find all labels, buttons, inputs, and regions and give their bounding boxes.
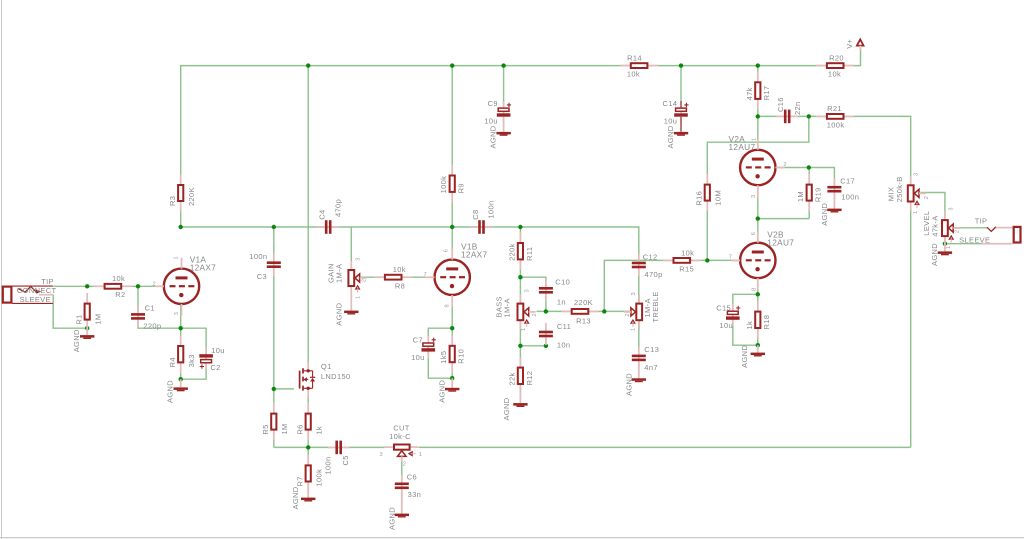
input jack switch wire	[39, 294, 53, 296]
svg-text:2: 2	[362, 279, 368, 282]
svg-text:C13: C13	[644, 345, 659, 354]
potentiometer GAIN 1M-A	[350, 261, 352, 271]
svg-text:47k: 47k	[745, 87, 754, 100]
wire rail through R17 to V2A plate	[757, 66, 759, 150]
junction R10 bottom	[450, 376, 454, 380]
svg-text:R13: R13	[576, 316, 591, 325]
svg-text:AGND: AGND	[388, 507, 397, 530]
svg-text:4n7: 4n7	[644, 363, 658, 372]
tube V1A 12AX7	[164, 269, 199, 304]
capacitor C17 100n	[833, 178, 835, 200]
svg-text:1: 1	[946, 246, 952, 249]
input jack tip contact	[12, 285, 53, 287]
svg-text:2: 2	[955, 230, 961, 233]
wire Q1 gate	[274, 388, 294, 390]
svg-text:1: 1	[751, 138, 757, 141]
junction C16 R21	[807, 114, 811, 118]
wire BASS top to C10	[520, 277, 546, 311]
wire rail to C9	[503, 66, 505, 101]
page border bottom	[0, 537, 1024, 539]
power V+ symbol	[857, 39, 864, 45]
svg-text:R5: R5	[261, 424, 270, 434]
tube V2B 12AU7	[740, 243, 775, 278]
wire GAIN wiper through R8 to V1B grid	[360, 276, 435, 278]
ground AGND C6	[401, 492, 403, 514]
svg-text:R12: R12	[525, 371, 534, 386]
junction rail x503	[501, 63, 505, 67]
svg-text:10u: 10u	[211, 346, 225, 355]
svg-text:C12: C12	[643, 252, 658, 261]
resistor R16 10M	[706, 174, 708, 186]
resistor R19 1M	[808, 174, 810, 186]
svg-text:12AU7: 12AU7	[767, 238, 794, 248]
wire BASS wiper through R13 to TREBLE wiper	[537, 310, 632, 312]
wire C2 parallel loop	[181, 328, 206, 379]
svg-text:3: 3	[751, 195, 757, 198]
svg-text:3: 3	[631, 292, 637, 295]
svg-text:C7: C7	[413, 336, 423, 345]
resistor R17 47k	[757, 72, 759, 84]
potentiometer LEVEL 47k-A	[944, 211, 946, 221]
resistor R7 100k	[307, 455, 309, 467]
svg-text:2: 2	[924, 196, 930, 199]
resistor R20 10k	[816, 65, 828, 67]
svg-text:8: 8	[444, 304, 450, 307]
svg-text:R10: R10	[457, 349, 466, 364]
svg-text:220k: 220k	[507, 243, 516, 261]
svg-text:2: 2	[403, 461, 406, 467]
potentiometer MIX 250k-B	[910, 176, 912, 186]
page border left	[1, 0, 3, 539]
wire C8 node down through R11 to BASS pot	[519, 227, 521, 303]
svg-text:AGND: AGND	[165, 380, 174, 403]
svg-text:3: 3	[914, 173, 920, 176]
svg-text:100k: 100k	[827, 120, 845, 129]
svg-text:12AX7: 12AX7	[461, 249, 487, 259]
junction R18 bottom	[756, 343, 760, 347]
svg-text:10k: 10k	[112, 274, 125, 283]
svg-text:R3: R3	[168, 196, 177, 206]
capacitor C16 22n	[776, 115, 798, 117]
output jack sleeve wire	[982, 243, 1013, 245]
svg-text:220K: 220K	[187, 187, 196, 206]
svg-text:CONNECT: CONNECT	[17, 286, 57, 295]
input jack switch mark	[18, 286, 37, 292]
wire BASS pin1 to C11 bottom node	[520, 321, 546, 346]
wire C4 to GAIN pot pin 3	[350, 227, 352, 269]
svg-text:1: 1	[521, 328, 527, 331]
ground AGND LEVEL	[944, 244, 946, 252]
ground AGND C13	[638, 362, 640, 378]
svg-text:10n: 10n	[557, 341, 571, 350]
svg-text:100n: 100n	[841, 193, 859, 202]
svg-text:TIP: TIP	[41, 277, 54, 286]
svg-text:10k: 10k	[393, 265, 406, 274]
wire MIX pin1 down to CUT net	[910, 203, 912, 448]
svg-text:R19: R19	[814, 187, 823, 202]
wire Q1 drain/source column from rail to CUT node	[307, 66, 309, 363]
svg-text:TREBLE: TREBLE	[651, 291, 660, 322]
svg-text:6: 6	[444, 249, 450, 252]
svg-text:220p: 220p	[143, 322, 161, 331]
junction R6 bottom CUT node	[306, 445, 310, 449]
junction LEVEL pin1 sleeve	[943, 242, 947, 246]
svg-text:10k: 10k	[681, 248, 694, 257]
junction V2A grid node	[807, 165, 811, 169]
Q1 drain dot	[307, 369, 310, 372]
wire MIX wiper to LEVEL pin 3	[921, 193, 945, 220]
svg-text:R8: R8	[395, 282, 405, 291]
svg-text:3k3: 3k3	[187, 354, 196, 367]
svg-text:C2: C2	[210, 363, 220, 372]
svg-text:6: 6	[751, 232, 757, 235]
svg-text:SLEEVE: SLEEVE	[20, 295, 51, 304]
ground AGND R7	[307, 484, 309, 498]
svg-text:R14: R14	[627, 53, 642, 62]
junction V2A cathode node	[756, 216, 760, 220]
ground AGND C14	[680, 117, 682, 132]
junction V1B cathode	[450, 326, 454, 330]
capacitor C6 33n	[401, 475, 403, 497]
resistor R8 10k	[374, 276, 386, 278]
wire jack switch+sleeve to ground rail	[53, 295, 87, 329]
ground AGND R18	[757, 345, 759, 352]
svg-text:10k: 10k	[828, 70, 841, 79]
wire Q1 source to CUT node and R7	[307, 396, 309, 490]
junction BASS top	[518, 275, 522, 279]
ground AGND C17	[833, 194, 835, 209]
svg-text:AGND: AGND	[820, 202, 829, 225]
svg-text:R11: R11	[525, 247, 534, 261]
resistor R6 1k	[307, 403, 309, 415]
junction V1B plate	[450, 225, 454, 229]
svg-text:AGND: AGND	[489, 125, 498, 148]
svg-text:AGND: AGND	[625, 373, 634, 396]
svg-text:R16: R16	[695, 191, 704, 206]
Q1 pin stubs	[307, 362, 309, 369]
junction BASS pin1 node	[518, 344, 522, 348]
tube V1B 12AX7	[435, 260, 470, 295]
Q1 source dot	[307, 387, 310, 390]
junction R3 bottom	[179, 225, 183, 229]
svg-text:100n: 100n	[324, 456, 333, 474]
junction R1 ground	[85, 326, 89, 330]
svg-text:10M: 10M	[714, 190, 723, 206]
svg-text:1M: 1M	[280, 423, 289, 434]
svg-text:100k: 100k	[439, 176, 448, 194]
svg-text:R9: R9	[457, 183, 466, 193]
svg-text:Q1: Q1	[321, 362, 332, 371]
svg-text:LND150: LND150	[321, 372, 351, 381]
svg-text:1: 1	[419, 452, 422, 458]
svg-text:AGND: AGND	[502, 397, 511, 420]
wire grid node to C17	[809, 168, 835, 182]
svg-text:R6: R6	[296, 424, 305, 434]
svg-text:33n: 33n	[408, 490, 422, 499]
svg-text:8: 8	[751, 288, 757, 291]
resistor R10 1k5	[451, 335, 453, 347]
svg-text:1: 1	[630, 328, 636, 331]
svg-text:AGND: AGND	[437, 379, 446, 402]
ground AGND R12	[519, 394, 521, 403]
junction input grid	[85, 284, 89, 288]
svg-text:AGND: AGND	[930, 243, 939, 266]
svg-text:R20: R20	[829, 53, 844, 62]
resistor R9 100k	[451, 165, 453, 177]
junction C11 bottom	[544, 344, 548, 348]
svg-text:10u: 10u	[664, 117, 678, 126]
svg-text:10u: 10u	[484, 117, 498, 126]
resistor R12 22k	[519, 357, 521, 369]
wire R16 column to V2B grid node	[707, 116, 809, 260]
svg-text:AGND: AGND	[291, 486, 300, 509]
wire cathode node to R19 bottom	[758, 218, 809, 220]
svg-text:100k: 100k	[314, 469, 323, 487]
junction C1 top	[136, 284, 140, 288]
svg-text:3: 3	[356, 258, 362, 261]
svg-text:C9: C9	[488, 99, 498, 108]
capacitor C3 100n	[273, 254, 275, 276]
potentiometer BASS 1M-A	[519, 295, 521, 305]
svg-text:3: 3	[524, 289, 530, 292]
svg-text:100n: 100n	[487, 201, 496, 219]
wire rail through R9 to V1B plate	[451, 66, 453, 260]
junction R4 bottom	[179, 377, 183, 381]
wire TREBLE pin1 to C13 and AGND	[638, 321, 640, 349]
wire V2A cathode to V2B plate	[757, 185, 759, 243]
svg-text:22k: 22k	[507, 372, 516, 385]
svg-text:10k-C: 10k-C	[389, 432, 411, 441]
svg-text:1k: 1k	[314, 426, 323, 435]
svg-text:2: 2	[783, 162, 786, 168]
svg-text:1: 1	[356, 296, 362, 299]
svg-text:250k-B: 250k-B	[895, 176, 904, 202]
svg-text:C11: C11	[557, 322, 571, 331]
svg-text:12AU7: 12AU7	[729, 142, 756, 152]
svg-text:C14: C14	[662, 99, 677, 108]
wire V1A cathode down through R4 to AGND	[180, 304, 182, 379]
wire V+ top rail	[181, 49, 861, 227]
potentiometer TREBLE 1M-A	[638, 295, 640, 305]
junction R15 V2B grid	[705, 258, 709, 262]
svg-text:1k: 1k	[745, 321, 754, 330]
capacitor C7 10u	[427, 336, 429, 358]
svg-text:1k5: 1k5	[439, 351, 448, 364]
ground AGND C9	[503, 117, 505, 132]
capacitor C14 10u	[680, 101, 682, 123]
wire V1A plate node to C12 column	[181, 227, 639, 257]
svg-text:2: 2	[153, 281, 156, 287]
junction rail x452	[450, 63, 454, 67]
junction rail x681	[679, 63, 683, 67]
capacitor C11 10n	[545, 323, 547, 345]
resistor R21 100k	[816, 115, 828, 117]
wire R21 to MIX column	[845, 116, 911, 184]
svg-text:C17: C17	[840, 176, 855, 185]
svg-text:10u: 10u	[719, 321, 733, 330]
svg-text:C8: C8	[471, 210, 480, 220]
resistor R11 220k	[519, 233, 521, 245]
svg-text:3: 3	[380, 452, 383, 458]
svg-text:3: 3	[174, 312, 180, 315]
wire CUT wiper to C6	[401, 457, 403, 480]
output jack J2	[1014, 227, 1021, 243]
potentiometer CUT 10k-C	[385, 446, 393, 448]
wire LEVEL pin1 / output SLEEVE	[944, 237, 946, 244]
svg-text:C1: C1	[145, 304, 155, 313]
wire LEVEL wiper to output TIP	[954, 227, 987, 229]
svg-text:C4: C4	[318, 210, 327, 220]
wire C6 to AGND	[401, 491, 403, 507]
svg-text:7: 7	[729, 254, 732, 260]
wire grid node through C1 to cathode rail	[138, 286, 181, 328]
svg-text:2: 2	[532, 313, 538, 316]
capacitor C13 4n7	[638, 347, 640, 369]
output jack tip contact	[987, 227, 996, 232]
wire tone node up to R15 and V2B grid	[604, 260, 740, 311]
wire R5/C3 column	[273, 227, 275, 447]
wire rail to C14	[680, 66, 682, 101]
wire C7 parallel loop	[428, 328, 452, 378]
svg-text:1M-A: 1M-A	[335, 264, 344, 283]
svg-text:TIP: TIP	[975, 216, 988, 225]
junction C3 top	[272, 225, 276, 229]
wire R17 bottom to C16	[758, 115, 778, 117]
svg-text:1: 1	[173, 256, 179, 259]
resistor R2 10k	[94, 285, 106, 287]
svg-text:AGND: AGND	[666, 125, 675, 148]
svg-text:C10: C10	[555, 277, 570, 286]
ground AGND R1	[86, 328, 88, 335]
resistor R4 3k3	[180, 336, 182, 348]
wire V2A grid to R19/C17 node	[776, 167, 809, 169]
svg-text:R4: R4	[168, 357, 177, 367]
resistor R14 10k	[620, 65, 632, 67]
svg-text:SLEEVE: SLEEVE	[959, 235, 990, 244]
capacitor C9 10u	[503, 101, 505, 123]
svg-text:7: 7	[424, 272, 427, 278]
svg-text:100n: 100n	[249, 252, 267, 261]
svg-text:C6: C6	[407, 473, 417, 482]
wire V1B cathode through R10 to AGND node	[451, 295, 453, 378]
svg-text:V+: V+	[845, 38, 854, 48]
capacitor C10 1n	[545, 279, 547, 301]
junction V2B cathode node	[756, 292, 760, 296]
svg-text:C5: C5	[341, 455, 350, 465]
ground AGND R4	[180, 379, 182, 387]
svg-text:R7: R7	[296, 476, 305, 486]
capacitor C2 10u	[205, 347, 207, 369]
svg-text:R17: R17	[762, 86, 771, 101]
svg-text:R18: R18	[762, 315, 771, 330]
junction tone node	[602, 309, 606, 313]
ground AGND V1B	[451, 378, 453, 388]
capacitor C4 470p	[317, 226, 339, 228]
capacitor C5 100n	[328, 446, 350, 448]
svg-text:1M: 1M	[93, 313, 102, 324]
svg-text:12AX7: 12AX7	[190, 262, 216, 272]
svg-text:2: 2	[625, 314, 631, 317]
ground AGND GAIN	[350, 295, 352, 311]
svg-text:47k-A: 47k-A	[931, 215, 940, 236]
tube V2A 12AU7	[740, 150, 775, 185]
junction Q1 gate node	[272, 387, 276, 391]
wire R19 branch	[808, 168, 810, 219]
resistor R13 220K	[561, 310, 573, 312]
junction rail x308	[306, 63, 310, 67]
svg-text:R2: R2	[115, 290, 125, 299]
wire CUT net left section	[274, 446, 385, 448]
svg-text:1M: 1M	[796, 191, 805, 202]
svg-text:C16: C16	[776, 97, 785, 112]
svg-text:3: 3	[949, 207, 955, 210]
svg-text:1: 1	[913, 211, 919, 214]
capacitor C12 470p	[638, 254, 640, 276]
svg-text:R15: R15	[679, 265, 694, 274]
resistor R3 220K	[180, 175, 182, 187]
svg-text:C3: C3	[257, 272, 267, 281]
resistor R5 1M	[273, 403, 275, 415]
svg-text:10u: 10u	[411, 353, 425, 362]
svg-text:220K: 220K	[574, 298, 593, 307]
junction V1A cathode	[179, 326, 183, 330]
input jack sleeve contact	[12, 302, 53, 304]
wire CUT pin1 long net to MIX column	[419, 446, 911, 448]
junction C8 right	[518, 225, 522, 229]
wire C16 to R21	[797, 115, 826, 117]
wire V2B cathode through R18 to AGND	[757, 278, 759, 345]
input jack J1	[3, 287, 12, 303]
svg-text:C15: C15	[716, 304, 731, 313]
wire C12 to TREBLE pin 3	[638, 273, 640, 303]
resistor R18 1k	[757, 301, 759, 313]
junction rail x757	[756, 63, 760, 67]
capacitor C1 220p	[137, 305, 139, 327]
transistor Q1 LND150	[300, 368, 316, 390]
junction BASS wiper node	[544, 309, 548, 313]
svg-text:R21: R21	[827, 104, 842, 113]
svg-text:1M-A: 1M-A	[502, 298, 511, 317]
junction R17 bottom	[756, 114, 760, 118]
svg-text:470p: 470p	[645, 270, 663, 279]
svg-text:22n: 22n	[793, 101, 802, 115]
svg-text:R1: R1	[75, 314, 84, 324]
svg-text:AGND: AGND	[72, 329, 81, 352]
wire C15 parallel loop	[733, 294, 758, 345]
svg-text:470p: 470p	[333, 199, 342, 217]
svg-text:AGND: AGND	[335, 302, 344, 325]
resistor R15 10k	[663, 259, 675, 261]
wire BASS node through R12 to AGND	[519, 346, 521, 396]
capacitor C15 10u	[732, 304, 734, 326]
wire input TIP to V1A grid	[53, 285, 163, 287]
svg-text:10k: 10k	[627, 70, 640, 79]
svg-text:1n: 1n	[557, 297, 566, 306]
svg-text:AGND: AGND	[740, 345, 749, 368]
resistor R1 1M	[86, 293, 88, 305]
capacitor C8 100n	[471, 226, 493, 228]
